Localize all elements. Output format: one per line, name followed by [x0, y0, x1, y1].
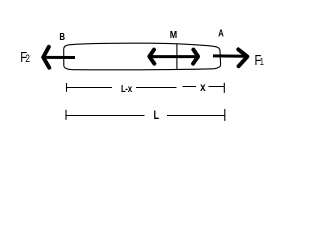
internal tension double arrow at M (left half) [149, 50, 177, 64]
dimension label L-x [121, 83, 133, 94]
svg-text:x: x [128, 83, 133, 94]
label F2 [20, 48, 30, 65]
svg-text:1: 1 [260, 56, 264, 67]
svg-text:M: M [170, 29, 177, 41]
dimension label x [200, 81, 205, 94]
label M [170, 29, 177, 41]
force arrow F1 (pointing right at A) [213, 49, 247, 66]
svg-text:x: x [200, 81, 205, 94]
svg-text:B: B [59, 31, 65, 42]
label A [218, 27, 224, 38]
section line at M [176, 44, 178, 70]
label B [59, 31, 65, 42]
svg-text:L: L [154, 109, 160, 123]
internal tension double arrow at M (right half) [177, 50, 198, 64]
force arrow F2 (pointing left at B) [43, 47, 75, 68]
dimension label L [154, 109, 160, 123]
dimension line L-x / x (upper) [66, 83, 224, 93]
label F1 [255, 51, 265, 68]
svg-text:A: A [218, 27, 224, 38]
svg-text:2: 2 [25, 53, 30, 65]
dimension line L (lower) [66, 109, 225, 121]
rod (rounded bar B to A) [64, 43, 221, 70]
